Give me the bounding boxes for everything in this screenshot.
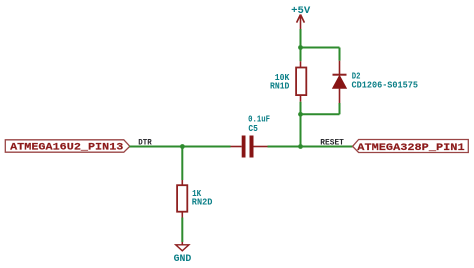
power +5V bbox=[291, 5, 310, 29]
svg-text:RN2D: RN2D bbox=[192, 197, 213, 208]
wire bbox=[300, 29, 302, 48]
wire bbox=[268, 146, 353, 148]
wire bbox=[300, 114, 302, 146]
svg-text:ATMEGA328P_PIN1: ATMEGA328P_PIN1 bbox=[357, 143, 464, 154]
wire bbox=[339, 103, 341, 114]
svg-text:CD1206-S01575: CD1206-S01575 bbox=[352, 80, 419, 91]
node DTR junction bbox=[180, 144, 185, 149]
svg-text:C5: C5 bbox=[248, 123, 258, 134]
svg-text:RESET: RESET bbox=[320, 138, 344, 148]
wire bbox=[301, 47, 340, 49]
global label ATMEGA328P_PIN1 bbox=[353, 140, 469, 155]
svg-text:GND: GND bbox=[174, 253, 192, 265]
svg-text:RN1D: RN1D bbox=[270, 81, 290, 92]
ground bbox=[176, 242, 189, 251]
svg-text:ATMEGA16U2_PIN13: ATMEGA16U2_PIN13 bbox=[10, 142, 123, 153]
wire bbox=[181, 147, 183, 181]
wire bbox=[301, 113, 340, 115]
capacitor C5 bbox=[231, 136, 268, 158]
wire bbox=[339, 48, 341, 61]
node top junction bbox=[298, 45, 303, 50]
node mid junction bbox=[298, 112, 303, 117]
resistor RN2D bbox=[177, 180, 187, 218]
node RESET junction bbox=[298, 144, 303, 149]
wire bbox=[181, 218, 183, 243]
wire bbox=[300, 48, 302, 62]
wire bbox=[129, 146, 230, 148]
wire bbox=[300, 102, 302, 115]
global label ATMEGA16U2_PIN13 bbox=[5, 140, 130, 154]
resistor RN1D bbox=[296, 61, 306, 101]
diode D2 bbox=[333, 61, 347, 103]
